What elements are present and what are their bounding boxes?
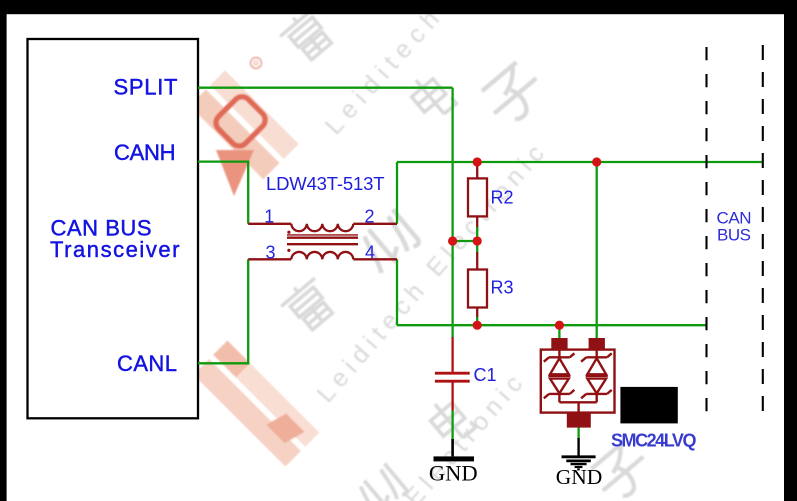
svg-text:LDW43T-513T: LDW43T-513T xyxy=(266,173,385,194)
left bidirectional diode xyxy=(544,350,575,403)
wire CANL from transceiver to choke pin 3 xyxy=(198,259,248,363)
common mode choke L1 LDW43T-513T xyxy=(248,224,397,259)
wire CANH from transceiver to choke pin 1 xyxy=(198,162,248,224)
wire R2 bottom to midpoint xyxy=(476,227,478,241)
label CAN BUS net xyxy=(717,209,752,245)
ground GND (bar style) for C1 xyxy=(451,439,454,456)
choke polarity dot bottom xyxy=(287,249,290,252)
wire TVS ground stub xyxy=(577,427,579,439)
CAN BUS boundary dashed line left xyxy=(705,47,707,419)
wire SPLIT horizontal xyxy=(198,87,453,89)
svg-text:SMC24LVQ: SMC24LVQ xyxy=(611,430,697,450)
wire CANL bus line xyxy=(397,324,707,326)
CAN BUS Transceiver box U1 xyxy=(28,39,199,418)
svg-text:Transceiver: Transceiver xyxy=(50,237,180,262)
CAN BUS boundary dashed line right xyxy=(762,45,764,419)
wire SPLIT vertical down to C1 xyxy=(451,88,453,338)
svg-text:2: 2 xyxy=(364,206,374,226)
junction CANL / TVS pin1 xyxy=(555,321,564,330)
ground GND (earth style) for TVS xyxy=(562,438,596,469)
junction R2 / R3 midpoint xyxy=(473,236,482,245)
wire CANH bus line xyxy=(397,161,763,163)
svg-text:R2: R2 xyxy=(491,188,514,208)
wire choke pin 4 down to CANL bus xyxy=(396,259,398,325)
capacitor C1 xyxy=(435,337,470,411)
svg-text:CANL: CANL xyxy=(117,351,177,376)
junction CANH / TVS pin2 xyxy=(592,157,601,166)
wire TVS pin1 to CANL bus xyxy=(558,325,560,339)
svg-text:3: 3 xyxy=(265,242,275,262)
svg-text:4: 4 xyxy=(365,242,375,262)
junction CANL / R3 xyxy=(473,321,482,330)
svg-text:CANH: CANH xyxy=(114,140,176,165)
wire R3 bottom to CANL bus xyxy=(476,317,478,325)
resistor R2 xyxy=(476,162,478,178)
label CAN BUS Transceiver xyxy=(50,216,180,262)
wire C1 bottom to GND xyxy=(451,411,453,440)
TVS array D1 SMC24LVQ xyxy=(541,338,615,428)
svg-text:C1: C1 xyxy=(474,365,497,385)
choke polarity dot top xyxy=(287,231,290,234)
right bidirectional diode xyxy=(581,350,612,403)
svg-text:1: 1 xyxy=(264,206,274,226)
black cover box xyxy=(620,387,677,424)
svg-text:SPLIT: SPLIT xyxy=(114,75,178,100)
wire choke pin 2 up to CANH bus xyxy=(396,162,398,224)
wire TVS pin2 to CANH bus xyxy=(596,162,598,339)
resistor R3 xyxy=(476,252,478,270)
junction SPLIT / midpoint xyxy=(448,236,457,245)
svg-text:GND: GND xyxy=(429,460,478,485)
svg-text:R: R xyxy=(253,60,259,69)
junction CANH / R2 xyxy=(473,157,482,166)
svg-text:R3: R3 xyxy=(491,278,514,298)
svg-text:BUS: BUS xyxy=(717,226,751,245)
svg-text:GND: GND xyxy=(556,465,603,489)
wire split junction to R2/R3 midpoint xyxy=(453,240,478,242)
wire midpoint to R3 top xyxy=(476,241,478,252)
